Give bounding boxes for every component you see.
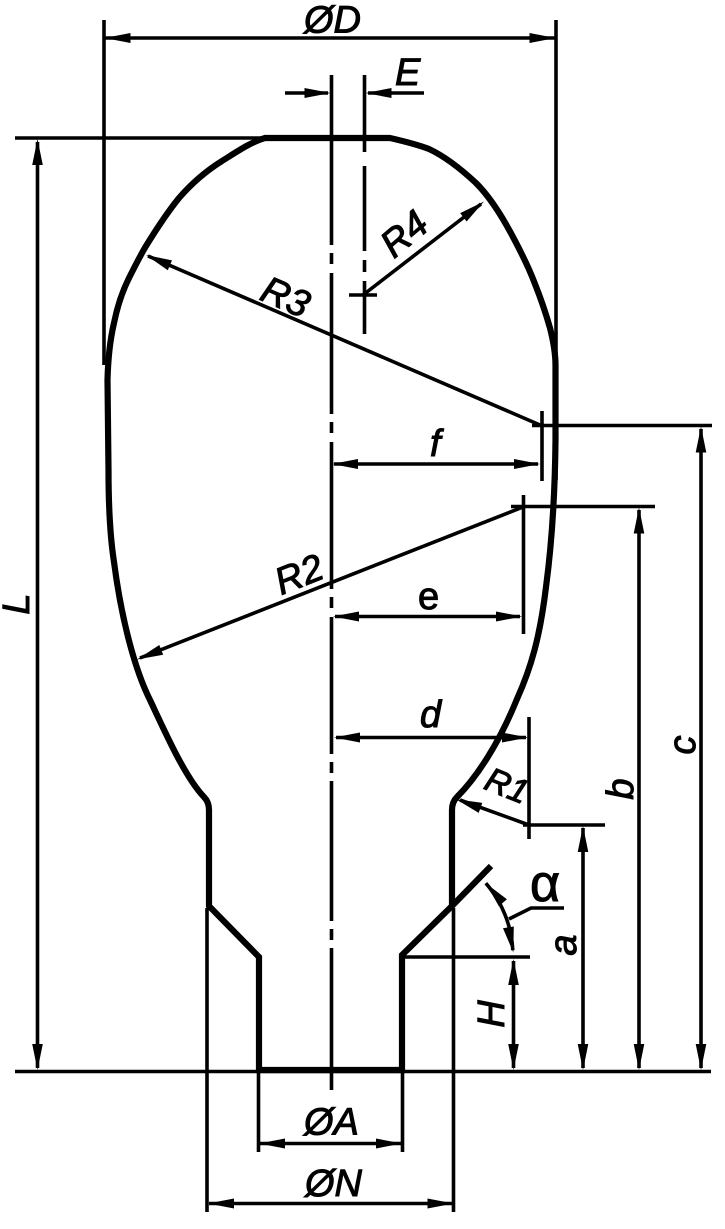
radius R2 leader — [140, 507, 523, 658]
dimension D extension line left — [102, 20, 106, 365]
dimension D line — [105, 36, 555, 40]
svg-text:L: L — [0, 593, 38, 614]
radius R1 leader — [460, 800, 529, 825]
dimension L line — [36, 142, 40, 1068]
eccentric axis E (dash-dot) — [363, 75, 367, 334]
alpha leader line — [509, 908, 564, 919]
dimension f line — [334, 462, 538, 466]
R2 center tick — [522, 495, 526, 634]
R3 center tick — [540, 411, 544, 481]
R4 center tick — [349, 293, 377, 297]
svg-text:b: b — [600, 778, 642, 799]
dimension N line — [209, 1202, 452, 1206]
svg-text:c: c — [662, 736, 704, 755]
center axis (dash-dot) — [330, 75, 334, 1090]
svg-text:ØA: ØA — [302, 1102, 359, 1144]
svg-text:α: α — [530, 855, 560, 913]
dimension E arrows — [285, 91, 328, 95]
alpha horizontal extension line — [402, 955, 530, 959]
baseline — [15, 1070, 711, 1074]
svg-text:a: a — [543, 934, 585, 955]
skirt angle construction line (alpha) — [452, 866, 491, 906]
dimension a line — [581, 828, 585, 1068]
dimension c extension line — [532, 424, 712, 428]
dimension A extension lines — [257, 1072, 261, 1152]
dimension D extension line right — [554, 20, 558, 480]
svg-text:H: H — [471, 1000, 513, 1028]
dimension c line — [699, 429, 703, 1068]
bulb outline — [108, 138, 556, 1070]
alpha angle arc — [486, 883, 513, 950]
radius R4 leader — [363, 204, 481, 295]
svg-text:d: d — [420, 694, 443, 736]
dimension e line — [335, 615, 520, 619]
svg-text:E: E — [395, 52, 421, 94]
svg-text:ØD: ØD — [302, 0, 361, 42]
d terminator tick — [527, 717, 531, 839]
radius R3 leader — [148, 256, 540, 425]
svg-text:ØN: ØN — [303, 1163, 363, 1205]
top of bulb extension line — [15, 136, 300, 140]
dimension b extension line — [511, 505, 655, 509]
svg-text:e: e — [418, 576, 439, 618]
dimension H line — [512, 961, 516, 1068]
dimension a extension line — [523, 823, 605, 827]
dimension b line — [637, 510, 641, 1068]
dimension N extension lines — [205, 908, 209, 1212]
dimension d line — [336, 736, 526, 740]
dimension A line — [260, 1142, 401, 1146]
